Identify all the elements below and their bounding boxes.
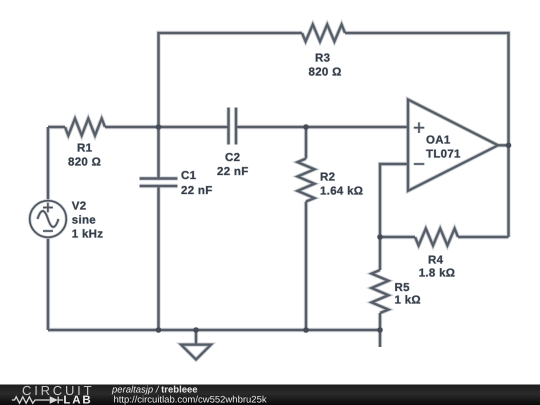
svg-text:sine: sine [72,215,96,227]
svg-text:C2: C2 [225,152,240,164]
svg-text:C1: C1 [181,170,197,182]
svg-text:http://circuitlab.com/cw552whb: http://circuitlab.com/cw552whbru25k [114,395,267,405]
svg-text:R3: R3 [315,53,330,65]
svg-text:1 kΩ: 1 kΩ [395,295,421,307]
svg-text:820 Ω: 820 Ω [68,157,101,169]
svg-text:1.64 kΩ: 1.64 kΩ [320,186,363,198]
svg-text:OA1: OA1 [426,135,451,147]
svg-text:V2: V2 [72,201,87,213]
svg-text:LAB: LAB [63,395,92,405]
svg-text:TL071: TL071 [426,149,461,161]
svg-text:R1: R1 [77,143,93,155]
svg-text:1 kHz: 1 kHz [72,229,104,241]
svg-text:1.8 kΩ: 1.8 kΩ [419,268,456,280]
svg-text:R4: R4 [428,255,444,267]
svg-text:R5: R5 [395,282,411,294]
svg-text:22 nF: 22 nF [217,166,249,178]
svg-text:820 Ω: 820 Ω [309,67,342,79]
svg-text:R2: R2 [320,172,335,184]
svg-text:22 nF: 22 nF [181,185,213,197]
